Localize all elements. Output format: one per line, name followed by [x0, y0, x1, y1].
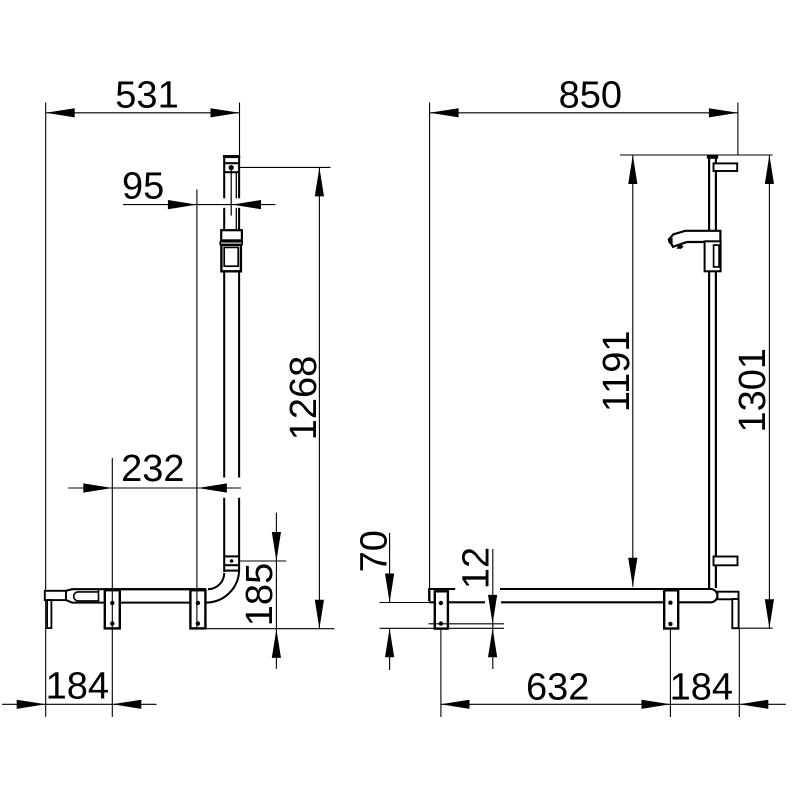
wire extension line right of 531 x=239.5	[239, 103, 241, 156]
dimension 70 line lower	[389, 628, 391, 670]
arrow 1301 top	[765, 155, 774, 184]
rail left wall segment 1	[223, 157, 225, 198]
arrow 1301 bottom	[765, 599, 774, 628]
wire extension line x=196.9 (bracket2 axis)	[196, 190, 198, 629]
bar bottom edge	[72, 602, 207, 604]
dimension 1268 line	[318, 167, 320, 628]
rail bottom clamp line 3	[224, 570, 239, 572]
arrow 185 bottom (outside, pointing up)	[272, 629, 281, 658]
screw dot B1 upper	[110, 601, 114, 605]
bar right rounded cap	[712, 589, 718, 602]
svg-text:1301: 1301	[732, 348, 774, 433]
hand shower head	[669, 231, 721, 247]
rail bottom clamp line 2	[224, 564, 239, 566]
screw dot bracket lower	[668, 622, 672, 626]
flange left (front view)	[435, 591, 448, 628]
arrow 232 right (outside)	[198, 483, 227, 492]
svg-text:850: 850	[559, 75, 622, 117]
nozzle mark 1	[668, 238, 673, 244]
rail right wall segment 3	[238, 271, 240, 477]
arrow 632 left	[441, 700, 470, 709]
bar bottom edge segment 2	[501, 601, 712, 603]
bar top edge segment 1	[429, 588, 456, 590]
screw dot flange lower	[439, 621, 443, 625]
bar end cap boundary	[98, 589, 100, 602]
wall plate right (edge view)	[732, 599, 738, 628]
wire ref line y=628.3	[380, 627, 505, 629]
rail left wall segment 3	[223, 271, 225, 477]
rail centerline x=231.2	[230, 168, 232, 216]
dimension 1301 line	[768, 155, 770, 628]
bar inner end cap	[74, 592, 99, 601]
svg-text:70: 70	[354, 530, 396, 572]
bar left end edge	[428, 588, 430, 601]
wire ref line y=628.2 right segment	[739, 627, 773, 629]
wire ref line y=628.7	[200, 628, 335, 630]
bracket right drawing	[664, 590, 678, 628]
rail inner right line segment 1	[235, 173, 237, 198]
dimension 185 line	[275, 513, 277, 669]
wire ref line y=623.8	[429, 623, 505, 625]
svg-text:185: 185	[239, 563, 281, 626]
rail right wall segment 2	[238, 208, 240, 231]
rail inner right line segment 2	[235, 208, 237, 230]
corner inner arc	[208, 573, 224, 589]
arrow 531 left	[46, 108, 75, 117]
svg-text:95: 95	[122, 165, 164, 207]
screw dot rail top	[229, 165, 234, 170]
screw dot B2 lower	[196, 621, 200, 625]
corner outer arc	[206, 570, 239, 603]
bracket B2	[190, 590, 205, 628]
screw dot flange upper	[439, 601, 443, 605]
dimension 232 line	[68, 487, 241, 489]
slider inner box	[224, 247, 238, 266]
arrow 12 top (pointing down)	[488, 595, 497, 624]
wire ref line y=602.5	[380, 602, 431, 604]
dimension 70 line upper	[389, 533, 391, 603]
slider middle band	[220, 242, 242, 245]
rail top cap	[223, 155, 240, 158]
shower rail right wall	[715, 158, 717, 588]
arrow 1268 top	[315, 167, 324, 196]
rail right wall segment 4	[238, 498, 240, 570]
shower rail top cap	[707, 155, 718, 159]
bar bottom edge segment 1	[429, 601, 485, 603]
rail right wall segment 1	[238, 157, 240, 198]
arrow 185 top (outside, pointing down)	[272, 532, 281, 561]
slider lower box	[221, 245, 241, 271]
screw dot B2 upper	[196, 601, 200, 605]
arrow 1191 top	[628, 155, 637, 184]
slider upper box	[221, 230, 242, 240]
rail left wall segment 4	[223, 498, 225, 572]
wall stub left	[45, 591, 66, 600]
dimension 95 line	[123, 204, 275, 206]
nozzle mark 2	[676, 244, 683, 249]
arrow 1268 bottom	[315, 600, 324, 629]
rail left wall segment 2	[223, 208, 225, 231]
dimension 531 line	[46, 112, 240, 114]
taper top	[66, 589, 72, 591]
wire ref line y=167.4 to 1268	[240, 166, 331, 168]
svg-text:232: 232	[121, 448, 184, 490]
arrow 70 bottom (pointing up)	[385, 628, 394, 657]
wire extension line left of 850 x=429.6	[429, 103, 431, 601]
arrow 95 right (pointing left, outside)	[232, 200, 261, 209]
shower rail left wall	[708, 158, 710, 588]
dimension 632/184 line	[441, 703, 787, 705]
wire extension line left (531/184) x=45.7	[45, 103, 47, 717]
arrow 95 left (pointing right, outside)	[168, 200, 197, 209]
taper bottom	[66, 600, 72, 603]
neck to wall plate	[718, 592, 739, 600]
arrow 850 right	[709, 108, 738, 117]
svg-text:1191: 1191	[596, 330, 638, 412]
arrow 184 right (outside)	[739, 700, 768, 709]
wire ext line x=670.4 bottom	[669, 629, 671, 717]
hand shower handle	[705, 241, 721, 271]
svg-text:12: 12	[456, 547, 498, 589]
bottom wall arm	[714, 557, 738, 566]
svg-text:632: 632	[526, 667, 589, 709]
wire ref line y=155	[620, 154, 773, 156]
bracket B2 ext line redraw	[196, 590, 198, 628]
svg-text:184: 184	[46, 665, 109, 707]
rail top clamp line upper	[225, 162, 238, 164]
arrow 184 left (outside, pointing right)	[17, 700, 46, 709]
arrow 70 top (pointing down)	[385, 574, 394, 603]
bracket B1	[105, 590, 120, 628]
rail bottom clamp line 1	[224, 555, 239, 557]
dimension 850 line	[430, 112, 738, 114]
dimension 184 line	[2, 703, 157, 705]
dimension 12 line	[492, 549, 494, 669]
dimension 1191 line	[632, 155, 634, 587]
arrow 12 bottom (pointing up)	[488, 628, 497, 657]
arrow 850 left	[430, 108, 459, 117]
wall plate left (edge view)	[47, 600, 51, 628]
screw dot B1 lower	[110, 621, 114, 625]
arrow 632 right / 184 left	[642, 700, 671, 709]
rail top clamp line lower	[225, 171, 238, 173]
bracket B1 redraw ext line	[111, 458, 113, 717]
arrow 232 left (outside)	[83, 483, 112, 492]
arrow 1191 bottom	[628, 558, 637, 587]
bar top edge	[72, 588, 207, 590]
top wall arm	[714, 163, 738, 171]
wire extension line right of 850 x=737.9	[737, 103, 739, 156]
handle inner detail	[714, 245, 720, 267]
arrow 184 right (outside, pointing left)	[112, 700, 141, 709]
wire ext line x=440.9 bottom	[440, 629, 442, 717]
wire ext line x=739.3 bottom	[738, 628, 740, 717]
bar top edge segment 2	[500, 588, 712, 590]
svg-text:531: 531	[115, 75, 178, 117]
screw dot rail bottom clamp	[230, 559, 234, 563]
screw dot bracket upper	[668, 601, 672, 605]
wire ref line y=561 to 185	[240, 560, 286, 562]
bar top edge over brackets	[105, 588, 206, 590]
svg-text:184: 184	[670, 667, 733, 709]
svg-text:1268: 1268	[283, 356, 325, 441]
arrow 531 right	[211, 108, 240, 117]
